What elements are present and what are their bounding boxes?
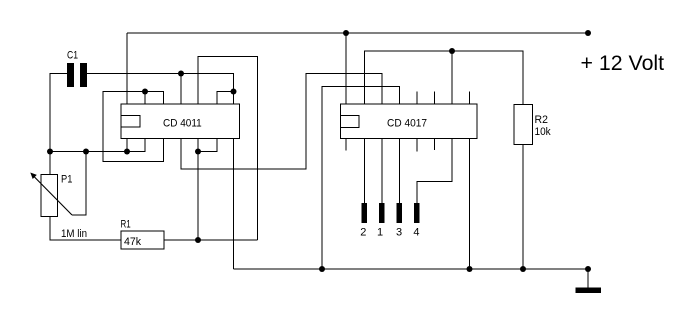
junction C1 wire / U1 pin 4 xyxy=(178,71,184,77)
wire bottom ground rail xyxy=(234,268,589,270)
junction top rail / U2 pin 1 xyxy=(343,30,349,36)
output terminal bar 3 xyxy=(397,203,403,223)
wire IC1 pin4 bottom loop to IC2 pin3 xyxy=(181,74,382,170)
wire IC2 pin8 bottom to ground rail xyxy=(469,139,471,270)
wire output 1 xyxy=(381,139,383,204)
svg-text:CD 4017: CD 4017 xyxy=(387,118,427,130)
svg-text:4: 4 xyxy=(413,227,419,239)
wire second rail y51 xyxy=(365,51,524,105)
wire R1 right to oscillator loop xyxy=(164,239,258,241)
svg-text:47k: 47k xyxy=(124,236,142,248)
pin stub U2 bottom pin 1 xyxy=(345,139,347,151)
junction ground rail / clock-enable line xyxy=(319,266,325,272)
svg-text:P1: P1 xyxy=(61,174,72,186)
svg-text:10k: 10k xyxy=(535,126,552,138)
wire junction 181 down to IC1 pin4 top xyxy=(180,74,182,105)
wire y91 link pin2/pin3 tops xyxy=(103,92,164,162)
junction ground rail / R2 bottom xyxy=(520,266,526,272)
wire IC2 pin6 top to rail y51 xyxy=(451,51,453,104)
wire output 3 xyxy=(399,139,401,204)
junction U1 pin 2 top xyxy=(142,89,148,95)
node ground terminal xyxy=(585,266,591,272)
wire IC1 pin2 top stub xyxy=(144,92,146,105)
wire IC2 pin1 top to +12V rail xyxy=(345,33,347,104)
output terminal bar 2 xyxy=(362,203,368,223)
wire C1 left branch down to lower rail xyxy=(50,74,67,152)
output terminal bar 1 xyxy=(379,203,385,223)
wire output 4 xyxy=(417,139,452,204)
junction P1 wiper xyxy=(83,149,89,155)
wire C1 right to IC1 pins 6-7 xyxy=(87,74,234,92)
resistor R2 body xyxy=(514,105,533,145)
IC U1 CD 4011 xyxy=(121,104,240,139)
wire IC1 pin1 top to +12V rail xyxy=(126,33,128,104)
ground lead xyxy=(587,269,589,288)
wire R2 bottom to ground rail xyxy=(522,145,524,270)
svg-text:R1: R1 xyxy=(121,219,131,231)
pin stub U2 top pin 5 xyxy=(416,92,418,105)
wire output 2 xyxy=(364,139,366,204)
IC U2 CD 4017 xyxy=(341,104,478,139)
junction U1 pin 7 top xyxy=(231,89,237,95)
pin stub U2 bottom pin 5 xyxy=(416,139,418,152)
junction U1 pin 5 bottom xyxy=(195,149,201,155)
svg-text:CD 4011: CD 4011 xyxy=(163,118,202,130)
capacitor C1 xyxy=(67,63,87,87)
svg-text:C1: C1 xyxy=(67,50,78,62)
svg-text:3: 3 xyxy=(396,227,402,239)
output terminal bar 4 xyxy=(414,203,420,223)
resistor R1 body xyxy=(121,231,164,249)
pin stub U2 top pin 6 xyxy=(434,92,436,105)
pin stub U2 top pin 8 xyxy=(469,92,471,105)
node +12V supply terminal xyxy=(585,30,591,36)
junction U1 pin 1 bottom xyxy=(124,149,130,155)
potentiometer P1 xyxy=(30,173,72,217)
wire outer loop pin5 top to R1 xyxy=(198,57,258,241)
junction ground rail / U2 pin 8 xyxy=(467,266,473,272)
wire IC1 pin1 bottom xyxy=(126,139,128,152)
svg-text:2: 2 xyxy=(360,227,366,239)
wire P1 top pin xyxy=(49,152,51,175)
junction rail y51 / U2 pin 6 xyxy=(449,48,455,54)
wire P1 wiper to lower rail xyxy=(72,152,86,216)
wire IC2 pin4 to ground rail xyxy=(322,87,400,270)
wire IC1 pin6 bottom xyxy=(198,139,217,152)
wire P1 bottom to R1 left xyxy=(50,217,121,241)
wire IC1 pin6 pin7 tops xyxy=(217,92,234,105)
svg-text:R2: R2 xyxy=(535,114,548,126)
junction R1 right / oscillator loop xyxy=(195,237,201,243)
ground xyxy=(576,288,602,294)
svg-text:1: 1 xyxy=(377,227,383,239)
wire IC1 pin7 bottom to ground rail xyxy=(233,139,235,270)
pin stub U2 bottom pin 6 xyxy=(434,139,436,151)
junction C1 left / P1 top xyxy=(47,149,53,155)
wire top +12V rail xyxy=(127,32,588,34)
svg-text:1M lin: 1M lin xyxy=(61,228,87,240)
svg-text:+ 12 Volt: + 12 Volt xyxy=(581,52,665,75)
wire lower rail y151 xyxy=(50,139,145,152)
wire IC1 pin5 bottom long xyxy=(197,139,199,241)
